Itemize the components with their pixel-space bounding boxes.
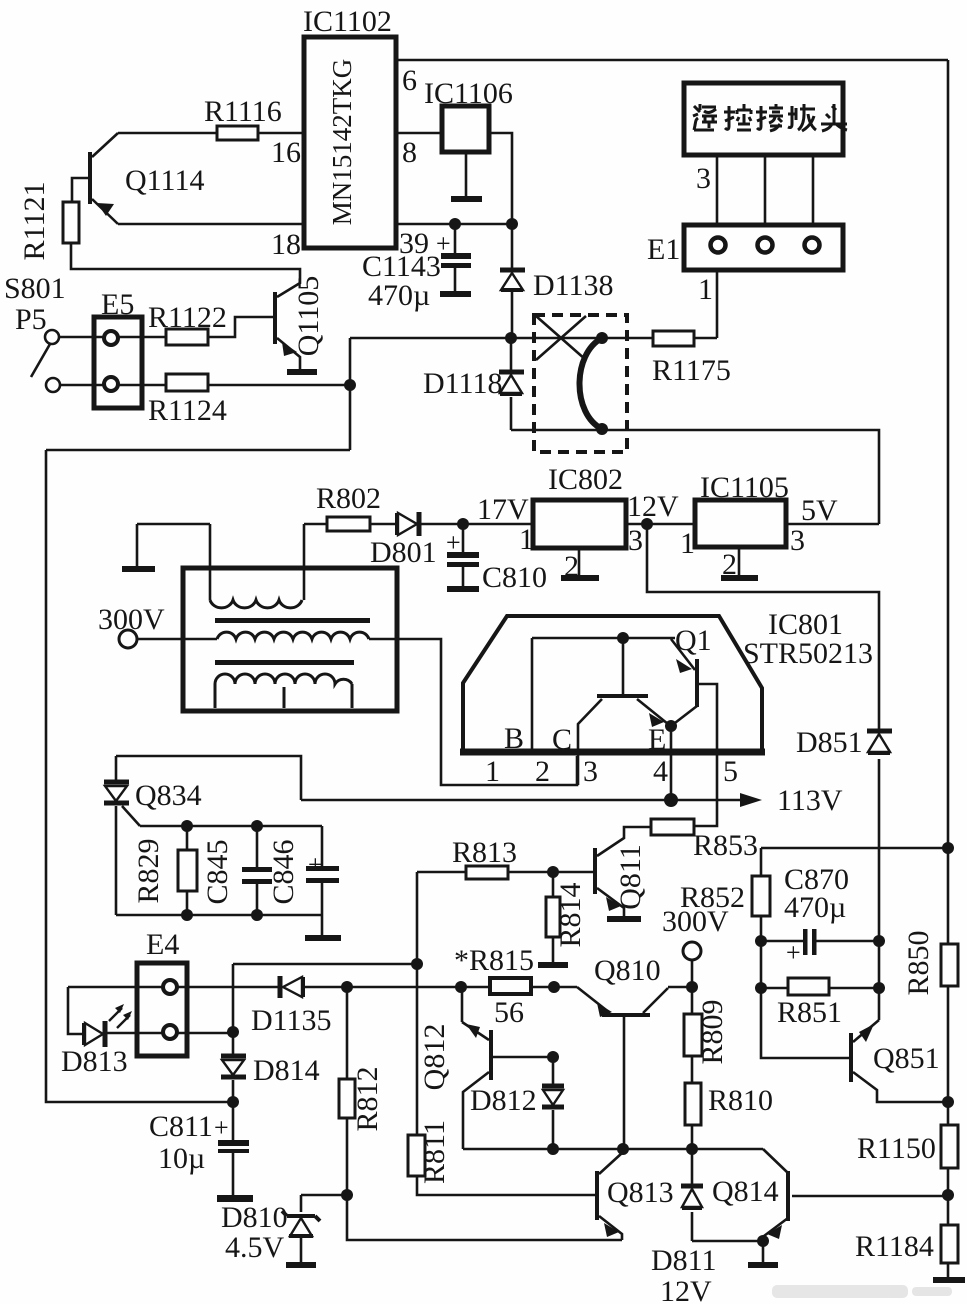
svg-text:D801: D801: [370, 536, 437, 569]
svg-text:R1184: R1184: [855, 1230, 934, 1263]
svg-text:R829: R829: [132, 838, 165, 903]
svg-text:17V: 17V: [477, 493, 529, 526]
svg-text:Q834: Q834: [135, 779, 202, 812]
svg-text:R810: R810: [708, 1084, 773, 1117]
svg-text:R813: R813: [452, 836, 517, 869]
svg-text:D1138: D1138: [533, 269, 614, 302]
svg-text:+: +: [786, 938, 801, 967]
svg-text:12V: 12V: [660, 1275, 712, 1304]
svg-text:4: 4: [653, 755, 668, 788]
svg-text:+: +: [214, 1113, 229, 1142]
svg-text:R1121: R1121: [18, 182, 51, 261]
svg-text:R814: R814: [554, 882, 587, 947]
svg-text:C846: C846: [267, 839, 300, 904]
svg-text:Q851: Q851: [873, 1042, 940, 1075]
svg-text:E4: E4: [146, 928, 179, 961]
svg-text:C811: C811: [149, 1110, 213, 1143]
svg-text:R812: R812: [351, 1066, 384, 1131]
svg-text:4.5V: 4.5V: [225, 1231, 285, 1264]
svg-text:S801: S801: [4, 272, 66, 305]
svg-text:R851: R851: [777, 996, 842, 1029]
svg-text:IC802: IC802: [548, 463, 623, 496]
svg-text:1: 1: [519, 523, 534, 556]
svg-text:18: 18: [271, 228, 301, 261]
svg-text:MN15142TKG: MN15142TKG: [327, 59, 357, 226]
svg-text:56: 56: [494, 996, 524, 1029]
svg-text:5: 5: [723, 755, 738, 788]
svg-text:Q811: Q811: [614, 844, 647, 910]
svg-text:12V: 12V: [627, 490, 679, 523]
svg-text:Q812: Q812: [418, 1024, 451, 1091]
svg-text:*R815: *R815: [454, 944, 534, 977]
svg-text:1: 1: [485, 755, 500, 788]
svg-text:3: 3: [583, 755, 598, 788]
svg-text:Q814: Q814: [712, 1175, 779, 1208]
svg-text:5V: 5V: [801, 494, 838, 527]
svg-text:IC1105: IC1105: [700, 471, 789, 504]
svg-text:+: +: [446, 528, 461, 557]
svg-text:R853: R853: [693, 829, 758, 862]
svg-text:470µ: 470µ: [368, 279, 430, 312]
svg-text:113V: 113V: [777, 784, 843, 817]
svg-text:R809: R809: [696, 999, 729, 1064]
svg-text:8: 8: [402, 136, 417, 169]
svg-text:Q1114: Q1114: [125, 164, 204, 197]
svg-text:E1: E1: [647, 233, 680, 266]
svg-text:R1124: R1124: [148, 394, 227, 427]
svg-text:1: 1: [680, 527, 695, 560]
svg-text:300V: 300V: [662, 905, 729, 938]
svg-text:E5: E5: [101, 288, 134, 321]
svg-text:R850: R850: [902, 930, 935, 995]
svg-text:B: B: [504, 722, 524, 755]
svg-text:R811: R811: [418, 1120, 451, 1184]
svg-text:D1118: D1118: [423, 367, 502, 400]
svg-text:C845: C845: [201, 839, 234, 904]
svg-text:D1135: D1135: [251, 1004, 332, 1037]
svg-text:6: 6: [402, 64, 417, 97]
svg-text:IC1106: IC1106: [424, 77, 513, 110]
svg-text:P5: P5: [15, 303, 47, 336]
svg-text:+: +: [308, 850, 323, 879]
svg-text:C810: C810: [482, 561, 547, 594]
svg-text:IC1102: IC1102: [303, 5, 392, 38]
svg-text:10µ: 10µ: [158, 1142, 205, 1175]
svg-text:R1116: R1116: [204, 95, 282, 128]
svg-text:16: 16: [271, 136, 301, 169]
svg-text:C: C: [552, 723, 572, 756]
svg-text:D814: D814: [253, 1054, 320, 1087]
svg-text:E: E: [648, 723, 666, 756]
svg-text:Q810: Q810: [594, 954, 661, 987]
svg-text:D810: D810: [221, 1201, 288, 1234]
svg-text:Q1105: Q1105: [292, 276, 325, 357]
svg-text:R1150: R1150: [857, 1132, 936, 1165]
svg-text:R802: R802: [316, 482, 381, 515]
svg-text:2: 2: [722, 548, 737, 581]
svg-text:D812: D812: [470, 1084, 537, 1117]
svg-text:1: 1: [698, 273, 713, 306]
svg-text:Q813: Q813: [607, 1176, 674, 1209]
svg-text:2: 2: [564, 550, 579, 583]
svg-text:R1175: R1175: [652, 354, 731, 387]
svg-text:D851: D851: [796, 726, 863, 759]
svg-text:3: 3: [696, 162, 711, 195]
svg-text:3: 3: [628, 524, 643, 557]
svg-text:+: +: [436, 229, 451, 258]
svg-text:D811: D811: [651, 1244, 717, 1277]
svg-text:R1122: R1122: [148, 301, 227, 334]
svg-text:300V: 300V: [98, 603, 165, 636]
svg-text:3: 3: [790, 524, 805, 557]
svg-text:Q1: Q1: [675, 624, 712, 657]
svg-text:STR50213: STR50213: [743, 637, 873, 670]
svg-text:470µ: 470µ: [784, 891, 846, 924]
svg-text:D813: D813: [61, 1045, 128, 1078]
svg-text:2: 2: [535, 755, 550, 788]
